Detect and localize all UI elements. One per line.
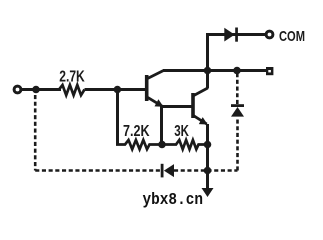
node C xyxy=(158,141,166,149)
transistor Q2 xyxy=(193,88,208,125)
resistor R1 2.7K xyxy=(59,85,85,95)
resistor R2 7.2K xyxy=(116,140,162,149)
svg-text:ybx8.cn: ybx8.cn xyxy=(143,191,204,210)
resistor R3 3K xyxy=(162,140,208,149)
node E dashed-rail junction xyxy=(204,167,212,175)
Q2 emitter arrowhead xyxy=(199,117,208,124)
terminal COM circle xyxy=(266,31,273,38)
node D xyxy=(204,141,212,149)
wire Q2 emitter down to arrow xyxy=(206,124,209,189)
dashed wire from node A down xyxy=(34,95,37,171)
wire collector rail2 xyxy=(163,69,266,72)
node B xyxy=(114,86,122,94)
Q1 emitter arrowhead xyxy=(155,99,164,107)
dashed wire right vertical below D2 xyxy=(236,118,239,171)
wire Q2 collector up to top rail corner xyxy=(208,35,266,89)
Q1 collector diagonal xyxy=(148,71,164,79)
svg-text:7.2K: 7.2K xyxy=(123,123,150,140)
svg-text:3K: 3K xyxy=(174,123,189,140)
svg-text:COM: COM xyxy=(279,28,305,45)
Q2 collector diagonal xyxy=(194,88,208,96)
diode D1 xyxy=(224,28,238,42)
wire node B down to resistor rail xyxy=(116,90,119,145)
wire Q1 emitter to Q2 base xyxy=(162,105,193,108)
Q1 base bar xyxy=(145,75,149,101)
dashed wire bottom rail right of D3 xyxy=(174,169,238,172)
wire R1 to Q1 base xyxy=(85,88,147,91)
diode D3 xyxy=(161,164,174,178)
node A xyxy=(32,86,40,94)
arrow terminal (emitter return) xyxy=(202,188,214,197)
node zener tap on rail2 xyxy=(233,67,241,75)
dashed wire bottom rail left of D3 xyxy=(35,169,160,172)
wire Q1 emitter down to node C xyxy=(160,107,163,145)
wire input to resistor R1 xyxy=(21,88,61,91)
Q1 emitter diagonal xyxy=(148,97,163,106)
terminal square (output) xyxy=(266,67,273,75)
dashed wire right vertical above D2 xyxy=(236,72,239,104)
Q2 base bar xyxy=(191,93,195,118)
transistor Q1 xyxy=(147,71,164,107)
node Q2 collector / rail2 junction xyxy=(204,67,212,75)
Q2 emitter diagonal xyxy=(194,116,207,124)
svg-text:2.7K: 2.7K xyxy=(59,69,85,86)
input terminal xyxy=(14,86,21,93)
diode D2 xyxy=(231,104,244,116)
